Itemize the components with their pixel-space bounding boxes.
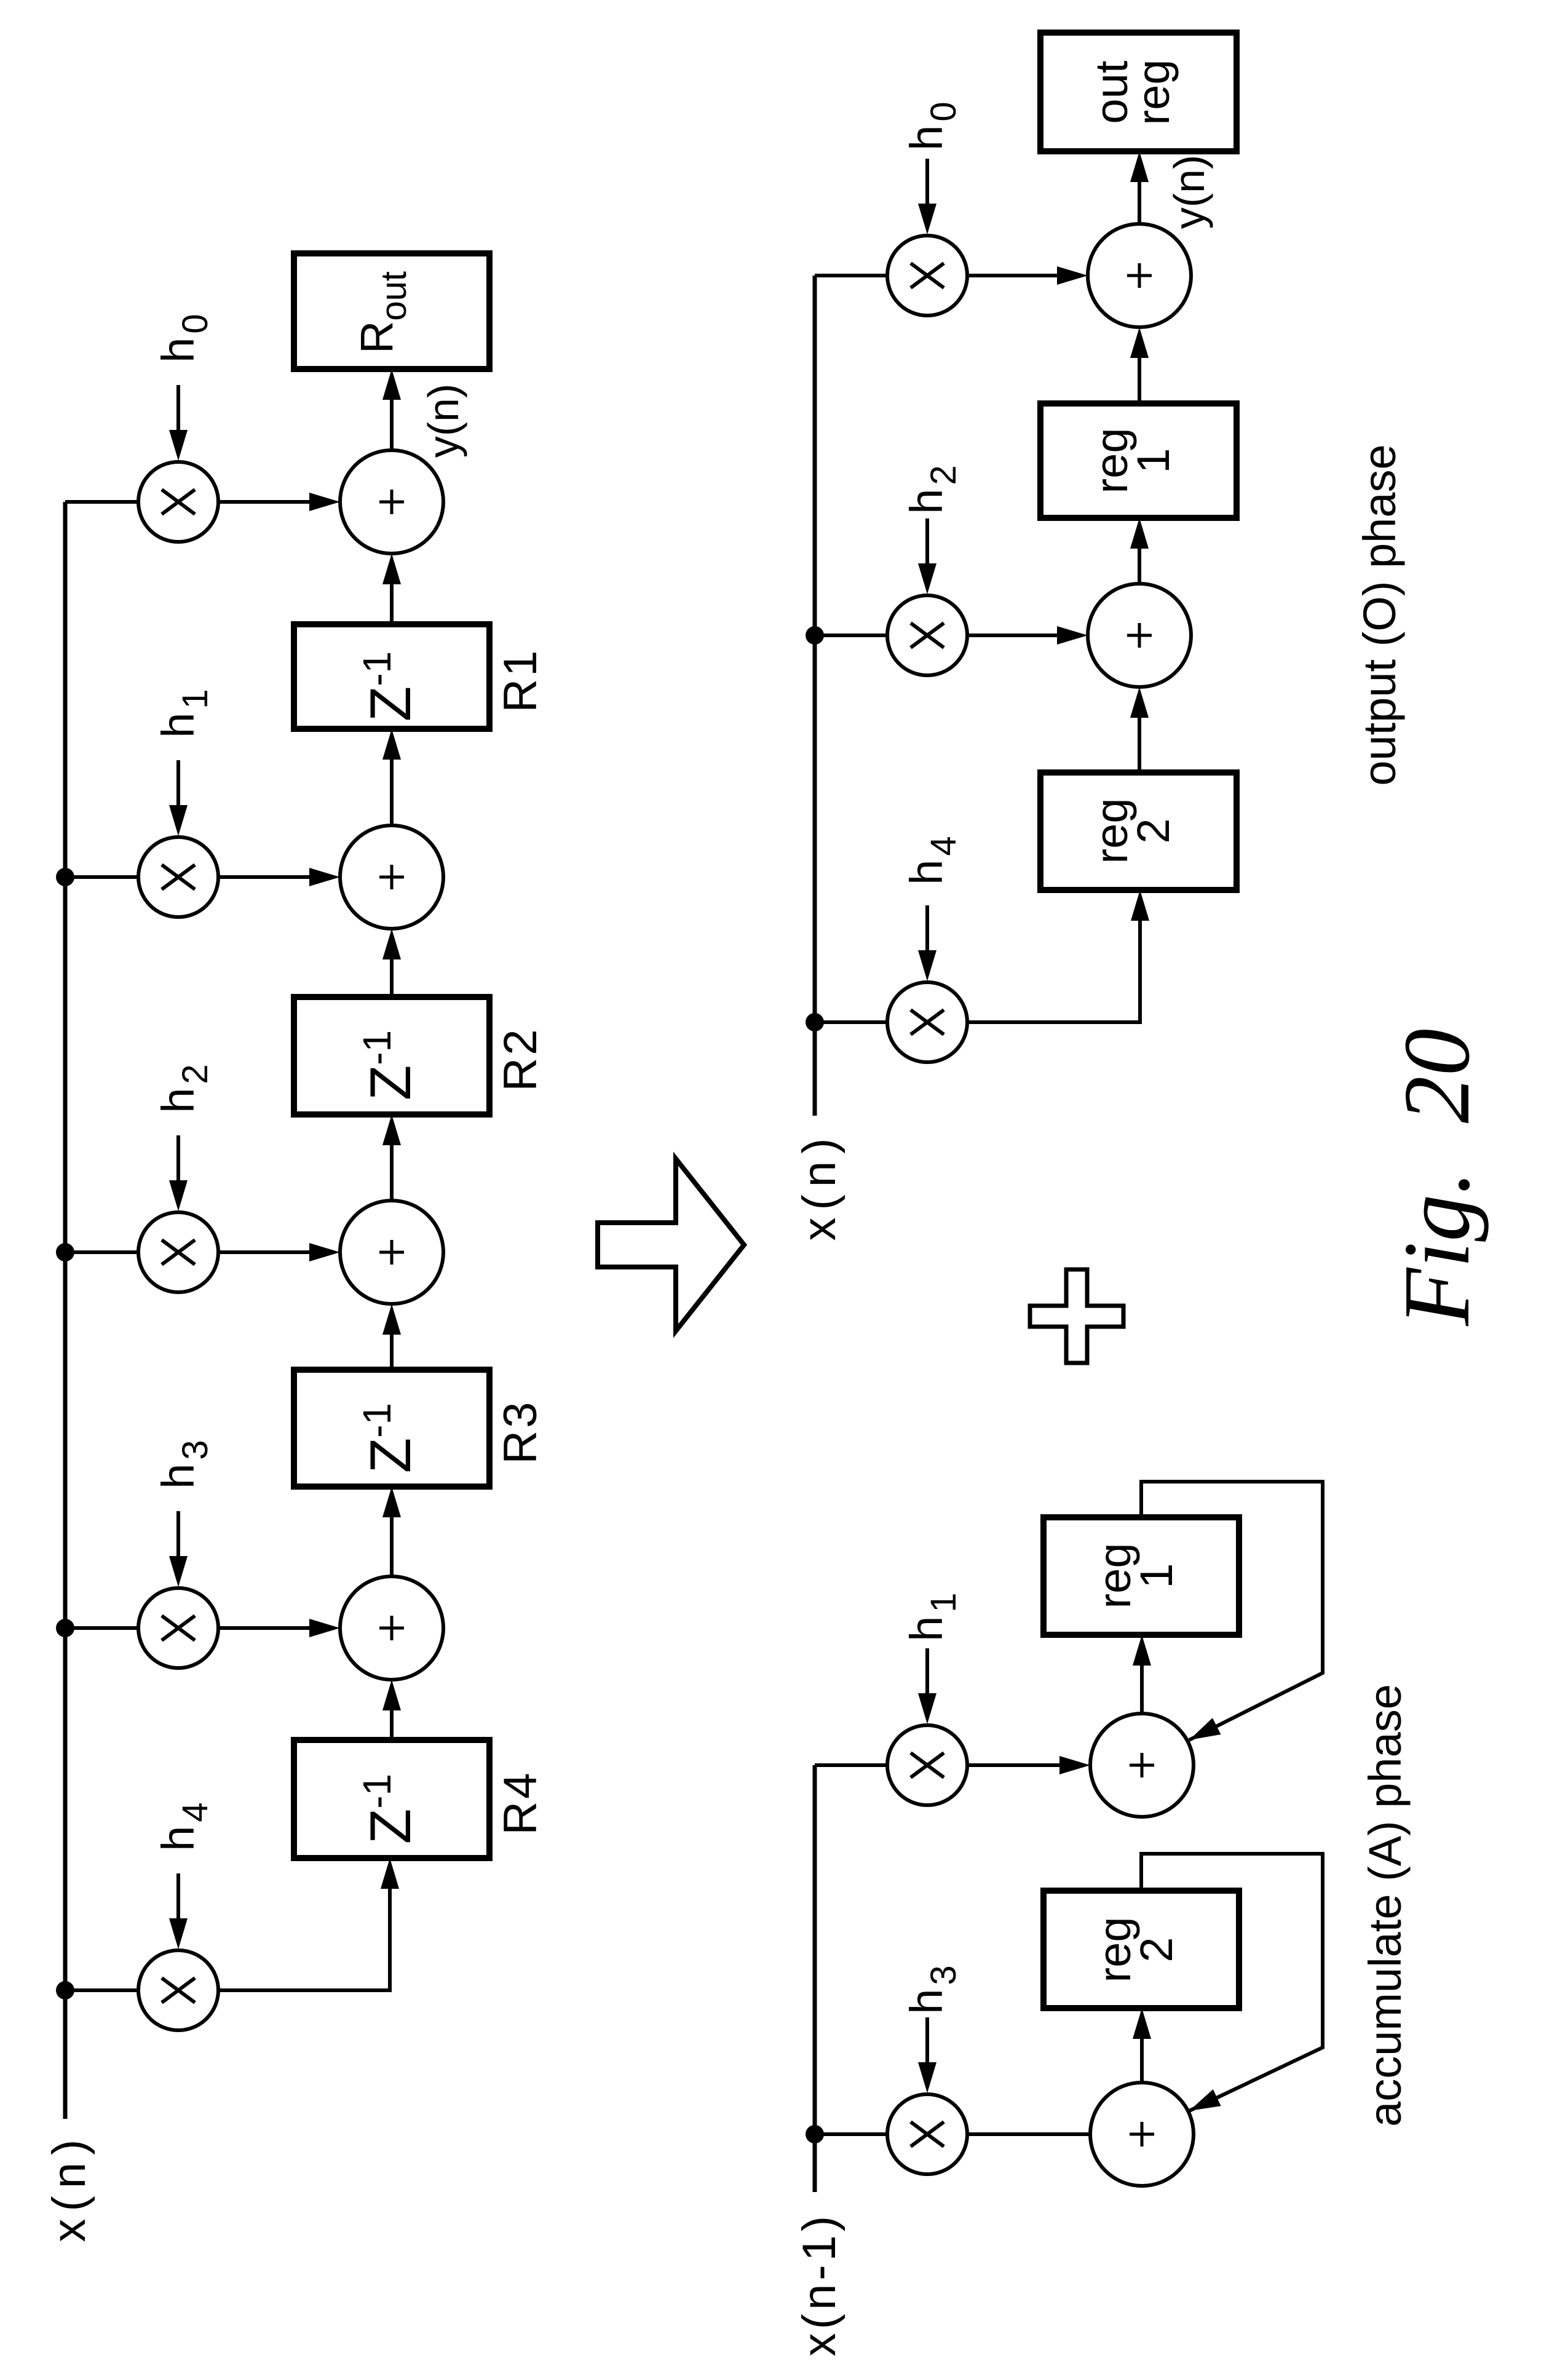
svg-text:accumulate (A) phase: accumulate (A) phase xyxy=(1360,1684,1411,2127)
svg-text:1: 1 xyxy=(1131,1563,1182,1588)
svg-text:x(n-1): x(n-1) xyxy=(793,2212,845,2356)
svg-text:R3: R3 xyxy=(494,1399,547,1464)
svg-text:2: 2 xyxy=(1131,1937,1182,1962)
svg-text:Fig. 20: Fig. 20 xyxy=(1385,1028,1489,1326)
svg-text:x(n): x(n) xyxy=(793,1131,845,1241)
svg-text:x(n): x(n) xyxy=(43,2132,95,2242)
svg-text:R4: R4 xyxy=(494,1770,547,1835)
svg-text:y(n): y(n) xyxy=(419,384,467,458)
svg-text:2: 2 xyxy=(1128,818,1179,843)
svg-text:R2: R2 xyxy=(494,1027,547,1091)
svg-text:1: 1 xyxy=(1128,448,1179,473)
svg-text:y(n): y(n) xyxy=(1165,155,1213,229)
svg-text:output (O) phase: output (O) phase xyxy=(1354,444,1405,785)
svg-text:reg: reg xyxy=(1128,60,1179,125)
svg-text:R1: R1 xyxy=(494,648,547,712)
